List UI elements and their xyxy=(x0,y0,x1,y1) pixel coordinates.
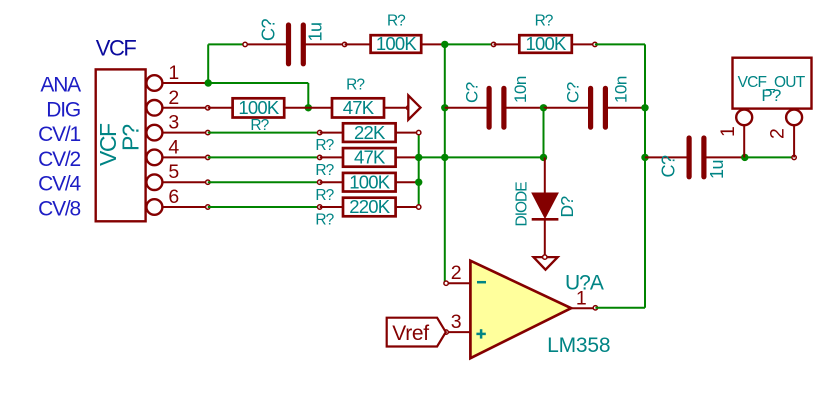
svg-text:47K: 47K xyxy=(354,147,386,168)
svg-text:CV/2: CV/2 xyxy=(38,148,80,171)
svg-text:R?: R? xyxy=(387,13,406,30)
svg-text:100K: 100K xyxy=(526,33,567,54)
svg-text:U?A: U?A xyxy=(565,271,604,294)
svg-text:100K: 100K xyxy=(238,97,279,118)
svg-text:CV/4: CV/4 xyxy=(38,173,81,196)
svg-text:3: 3 xyxy=(168,112,178,134)
svg-text:P?: P? xyxy=(761,86,781,105)
svg-text:LM358: LM358 xyxy=(547,334,610,357)
svg-text:C?: C? xyxy=(259,19,279,41)
svg-text:R?: R? xyxy=(346,77,365,94)
svg-text:R?: R? xyxy=(315,212,334,229)
svg-text:2: 2 xyxy=(168,87,178,109)
svg-text:P?: P? xyxy=(118,125,144,151)
svg-text:10n: 10n xyxy=(511,76,530,103)
svg-text:1: 1 xyxy=(168,62,178,84)
svg-text:Vref: Vref xyxy=(392,322,429,345)
svg-text:C?: C? xyxy=(463,82,482,103)
svg-text:220K: 220K xyxy=(349,196,390,217)
svg-text:C?: C? xyxy=(564,82,583,103)
svg-text:3: 3 xyxy=(451,311,461,333)
svg-text:10n: 10n xyxy=(612,76,631,103)
svg-text:DIODE: DIODE xyxy=(514,182,531,227)
svg-text:R?: R? xyxy=(315,137,334,154)
svg-text:C?: C? xyxy=(659,155,679,177)
svg-text:CV/8: CV/8 xyxy=(38,198,80,221)
svg-text:2: 2 xyxy=(767,129,789,139)
svg-text:1u: 1u xyxy=(707,160,727,179)
svg-text:1: 1 xyxy=(717,127,739,137)
svg-text:ANA: ANA xyxy=(40,74,81,97)
svg-text:47K: 47K xyxy=(343,97,375,118)
svg-text:6: 6 xyxy=(168,186,178,208)
svg-text:CV/1: CV/1 xyxy=(38,123,80,146)
svg-text:R?: R? xyxy=(535,13,554,30)
svg-text:D?: D? xyxy=(557,196,577,218)
svg-text:4: 4 xyxy=(168,136,179,158)
svg-text:R?: R? xyxy=(315,162,334,179)
svg-text:R?: R? xyxy=(250,117,269,134)
svg-text:DIG: DIG xyxy=(46,98,80,121)
svg-text:100K: 100K xyxy=(349,171,390,192)
svg-text:VCF: VCF xyxy=(96,35,137,60)
svg-text:1u: 1u xyxy=(306,22,326,41)
svg-text:2: 2 xyxy=(451,262,461,284)
svg-text:22K: 22K xyxy=(354,122,386,143)
svg-text:R?: R? xyxy=(315,187,334,204)
svg-text:100K: 100K xyxy=(376,33,417,54)
svg-text:5: 5 xyxy=(168,161,179,183)
